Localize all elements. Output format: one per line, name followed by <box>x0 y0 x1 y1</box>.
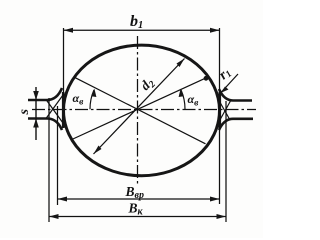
svg-text:Ввр: Ввр <box>125 184 144 201</box>
left bead diagonal 2 <box>46 95 63 119</box>
svg-text:αв: αв <box>188 92 200 109</box>
b1/Bvr extension line right <box>219 28 221 204</box>
svg-text:s: s <box>17 109 32 116</box>
Bvr arrow left <box>58 197 68 202</box>
Bvr dimension line <box>58 198 220 200</box>
b1 arrow left <box>64 28 74 33</box>
left bottom lip line with fillet <box>28 119 62 131</box>
b1 arrow right <box>210 28 220 33</box>
r1 leader arrowhead <box>221 87 229 94</box>
svg-text:b1: b1 <box>130 13 143 31</box>
vertical centerline <box>137 36 139 185</box>
b1 dimension line <box>64 29 220 31</box>
arrowhead alpha right <box>179 89 184 97</box>
s arrow top <box>33 91 39 100</box>
r1 leader line <box>221 74 238 93</box>
left bead diagonal 1 <box>46 100 63 124</box>
left top lip line with fillet <box>28 88 62 100</box>
dot on D1 end <box>204 76 209 81</box>
svg-text:αв: αв <box>73 91 85 108</box>
svg-text:d2: d2 <box>137 74 158 95</box>
diameter line d2 <box>94 59 185 155</box>
Bk arrow right <box>217 214 227 219</box>
Bvr extension line left <box>57 106 59 205</box>
Bk dimension line <box>49 216 226 218</box>
Bk extension line right <box>225 101 227 222</box>
arrowhead d2 upper <box>177 59 185 68</box>
right bead diagonal 2 <box>217 97 230 120</box>
horizontal centerline <box>32 109 256 111</box>
Bk extension line left <box>48 98 50 222</box>
right top lip line with fillet <box>219 89 252 101</box>
tire profile ellipse <box>64 45 220 176</box>
left wall straight segment <box>62 92 65 128</box>
svg-text:Вк: Вк <box>128 201 144 218</box>
right wall straight segment <box>219 92 222 128</box>
arrowhead d2 lower <box>94 146 102 155</box>
s arrow bottom <box>33 119 39 128</box>
alpha arc right <box>181 90 185 109</box>
chord line D1 (alpha right) <box>72 78 207 140</box>
arrowhead alpha left <box>91 89 96 97</box>
right bottom lip line with fillet <box>219 119 253 130</box>
s dimension line <box>35 87 37 140</box>
alpha arc left <box>90 90 94 109</box>
right bead diagonal 1 <box>216 100 231 127</box>
Bk arrow left <box>49 214 59 219</box>
Bvr arrow right <box>210 197 220 202</box>
chord line D2 (alpha left) <box>74 77 205 144</box>
b1 extension line left <box>63 28 65 96</box>
